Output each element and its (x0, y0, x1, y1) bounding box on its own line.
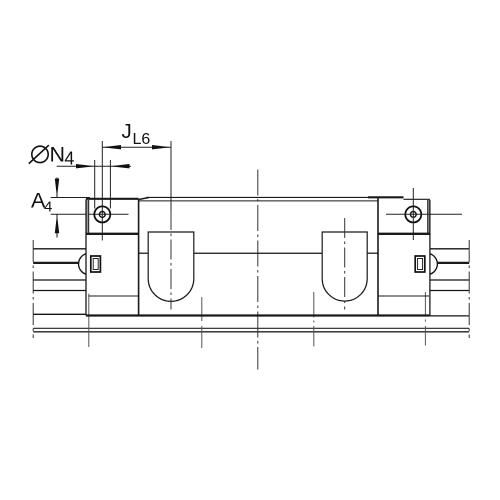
svg-text:L6: L6 (133, 131, 151, 148)
svg-text:N: N (50, 142, 66, 166)
svg-text:4: 4 (64, 149, 74, 169)
svg-text:4: 4 (44, 198, 52, 215)
svg-text:J: J (122, 120, 132, 143)
